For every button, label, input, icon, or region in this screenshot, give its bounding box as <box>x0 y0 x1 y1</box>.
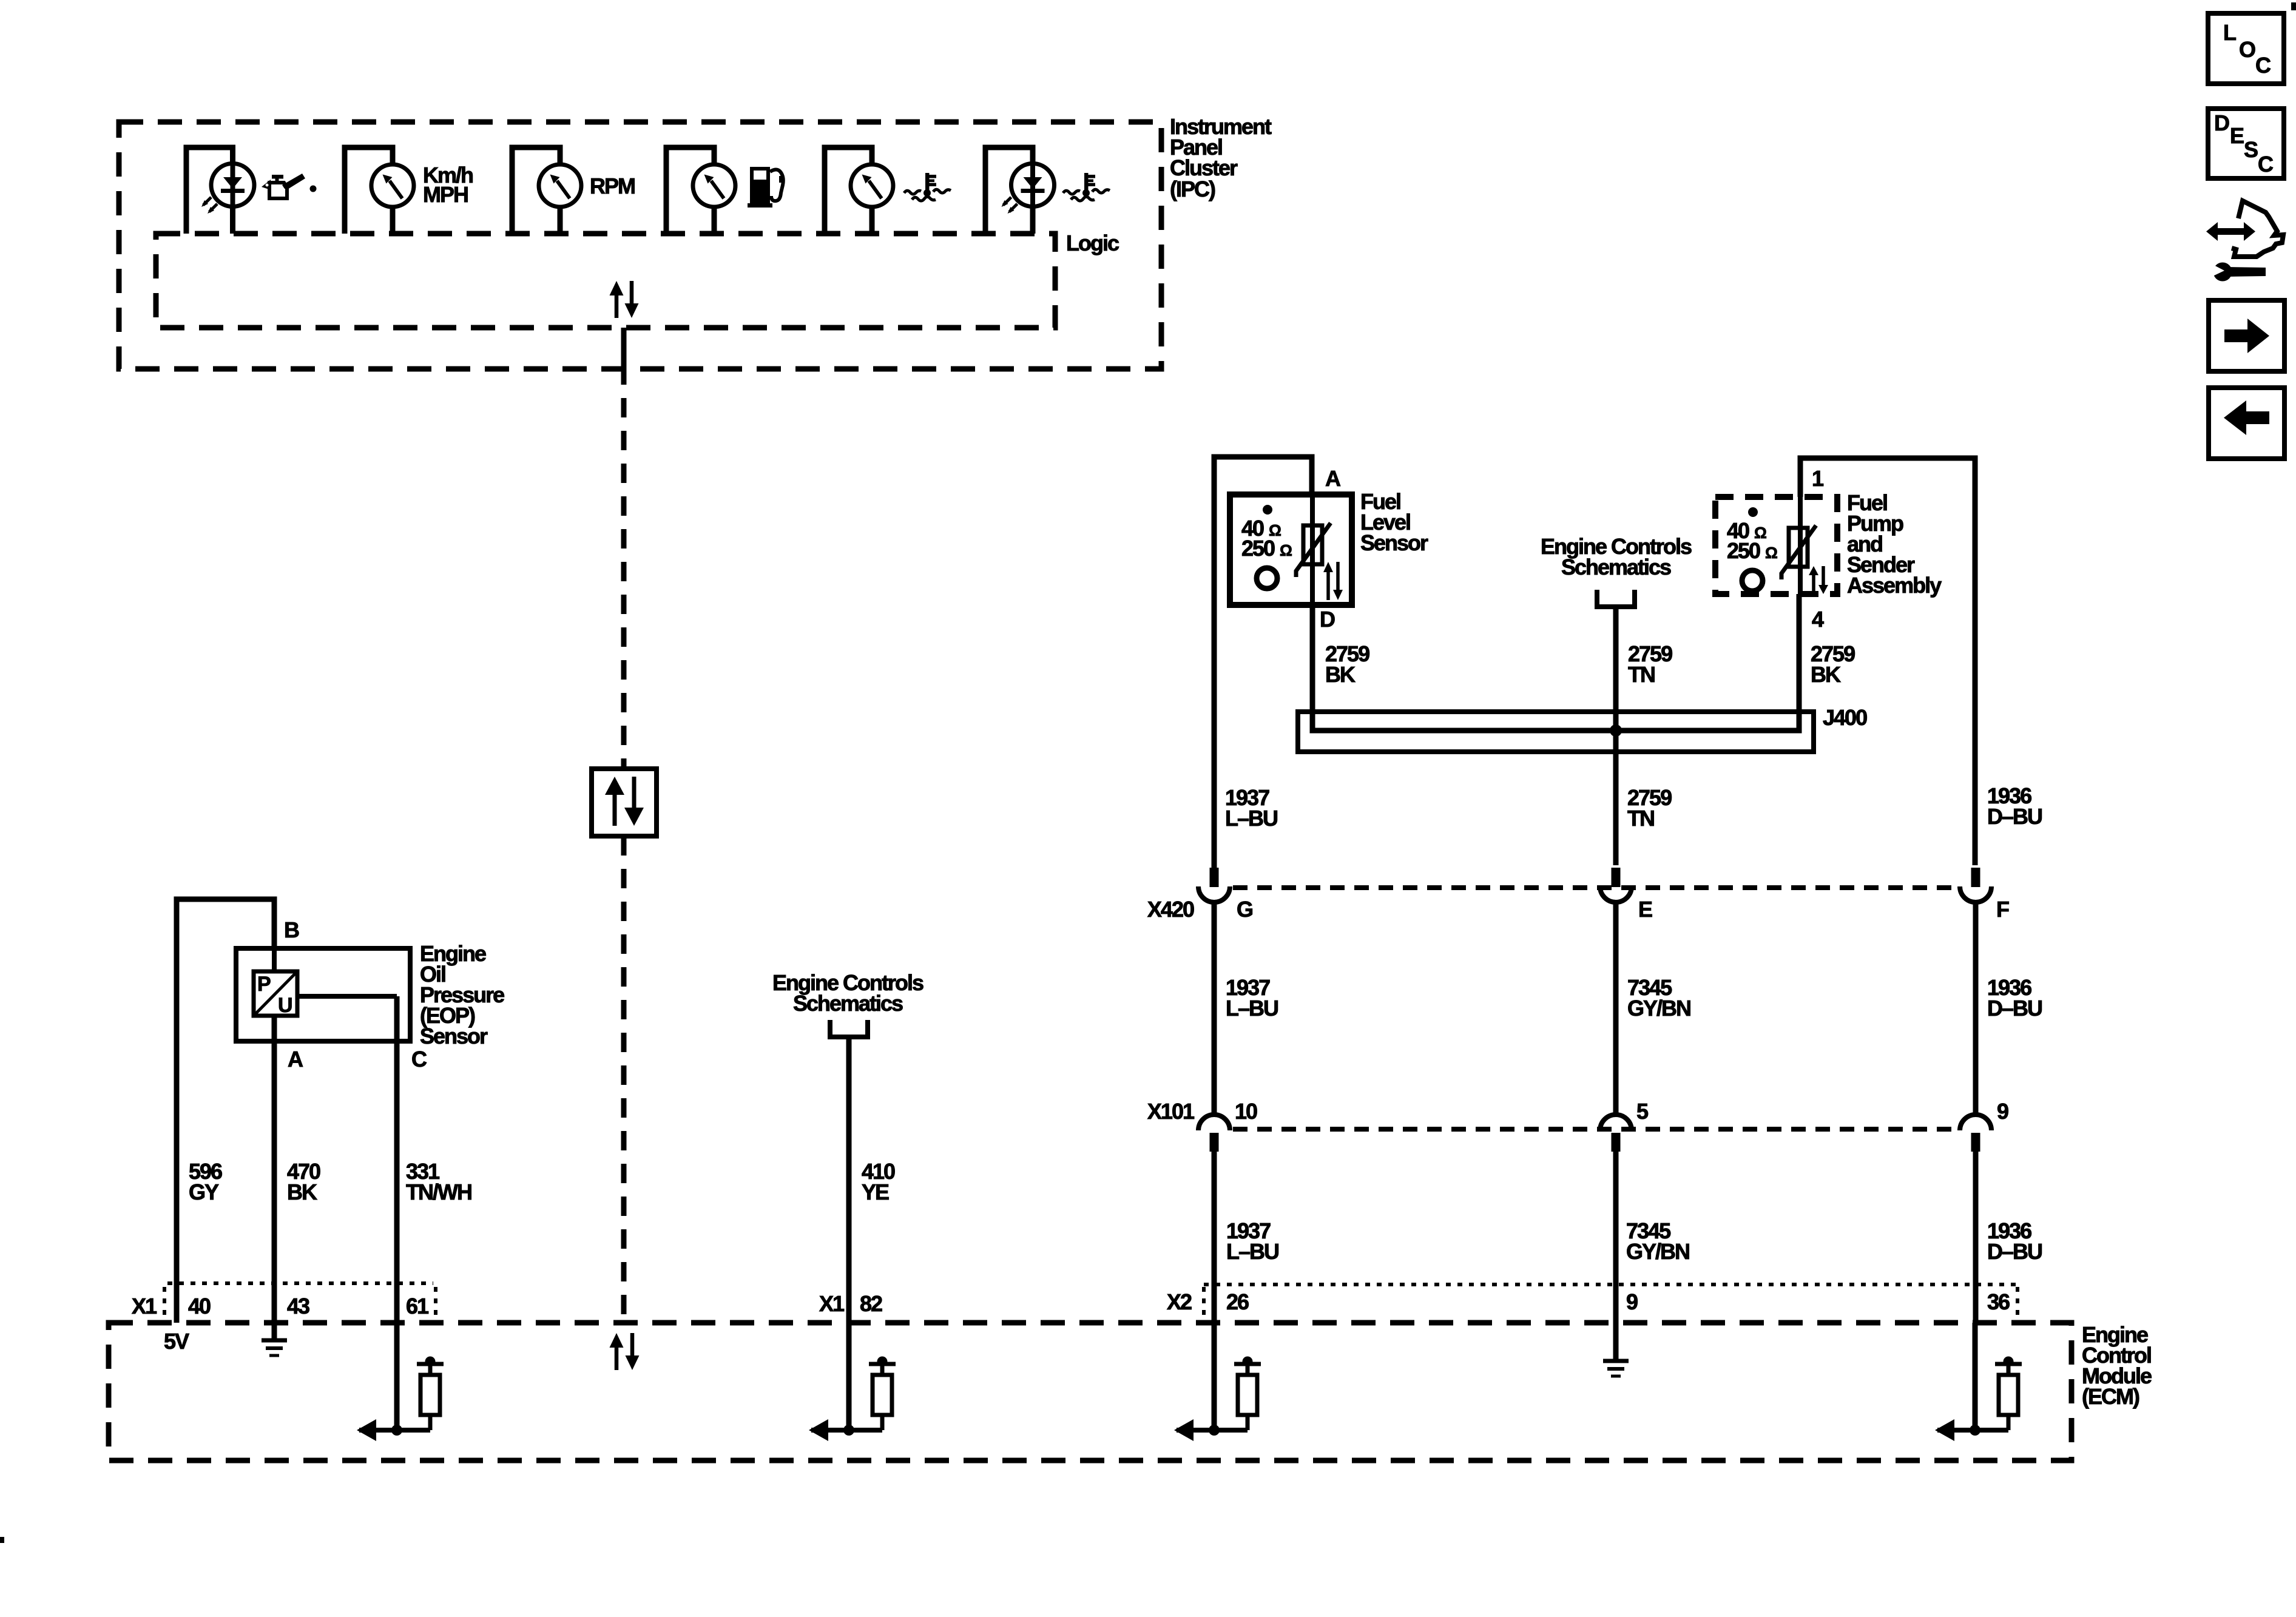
LED indicator 2 (coolant lamp) <box>1002 164 1055 214</box>
gauge loop 2 wire <box>345 147 393 234</box>
svg-text:P: P <box>257 973 271 996</box>
ECM pullup resistor pin 82 <box>809 1323 896 1441</box>
svg-text:D–BU: D–BU <box>1987 996 2042 1021</box>
svg-text:D–BU: D–BU <box>1987 804 2042 829</box>
svg-text:Assembly: Assembly <box>1847 573 1942 598</box>
svg-text:250: 250 <box>1727 538 1760 563</box>
svg-text:E: E <box>2230 123 2244 148</box>
wire 7345 GY/BN mid <box>1613 903 1619 1114</box>
IPC logic updown arrows <box>610 281 639 318</box>
fuel pump icon <box>748 167 783 208</box>
wire G above X420 <box>1212 865 1217 869</box>
fuel level sensor loop <box>1214 457 1312 865</box>
EOP P/U transducer symbol <box>254 971 297 1017</box>
gauge loop 3 wire <box>512 147 560 234</box>
IPC Logic box <box>156 234 1055 328</box>
svg-text:U: U <box>278 994 292 1017</box>
wire 7345 GY/BN lower <box>1613 1150 1619 1323</box>
connector X420 F <box>1960 868 1991 902</box>
wire 1936 D-BU mid <box>1973 903 1979 1114</box>
svg-text:C: C <box>2255 53 2271 78</box>
ECM pullup resistor pin 61 <box>357 1323 444 1441</box>
Engine Control Module box <box>109 1323 2071 1460</box>
ground symbol at pin 9 <box>1603 1323 1629 1376</box>
wire C inside box <box>394 996 400 1323</box>
svg-text:F: F <box>1996 897 2009 922</box>
fuel pump loop <box>1800 458 1975 865</box>
svg-text:A: A <box>1325 466 1341 491</box>
X1 connector left stub <box>163 1287 166 1318</box>
svg-text:L–BU: L–BU <box>1225 806 1277 831</box>
svg-text:L: L <box>2223 20 2236 45</box>
svg-text:E: E <box>1638 897 1652 922</box>
tachometer gauge <box>539 164 581 207</box>
svg-text:MPH: MPH <box>423 182 468 207</box>
svg-text:D: D <box>2214 110 2229 135</box>
svg-text:L–BU: L–BU <box>1226 996 1278 1021</box>
svg-text:Logic: Logic <box>1066 231 1119 255</box>
page corner mark top right <box>2291 2 2296 10</box>
svg-text:B: B <box>284 917 299 942</box>
svg-text:TN: TN <box>1628 662 1655 687</box>
svg-text:4: 4 <box>1812 607 1824 632</box>
wire 1936 D-BU lower <box>1973 1150 1979 1323</box>
wire 2759 TN upper <box>1613 607 1619 865</box>
back arrow icon box <box>2209 388 2284 459</box>
svg-text:BK: BK <box>287 1180 317 1204</box>
J400 internal bus wire <box>1312 728 1799 731</box>
svg-text:BK: BK <box>1325 662 1356 687</box>
wire through level sensor <box>1310 495 1315 605</box>
connector X420 E <box>1600 868 1632 902</box>
wire through pump sensor <box>1798 497 1803 594</box>
wire 2759 TN through J400 <box>1613 704 1619 758</box>
wire D to J400 <box>1310 605 1315 733</box>
svg-text:TN: TN <box>1627 806 1654 831</box>
svg-text:J400: J400 <box>1823 705 1867 730</box>
svg-text:YE: YE <box>862 1180 889 1204</box>
X1 connector right stub <box>434 1287 437 1318</box>
svg-text:Sensor: Sensor <box>1360 530 1428 555</box>
svg-text:X2: X2 <box>1167 1289 1192 1314</box>
updown arrows <box>1323 562 1343 600</box>
connector X101 10 <box>1198 1115 1230 1152</box>
updown arrows <box>1809 566 1828 594</box>
arrow box updown arrows <box>605 777 644 826</box>
X2 connector right stub <box>2016 1287 2019 1318</box>
Instrument Panel Cluster box <box>119 122 1161 369</box>
wire 4 to J400 <box>1797 594 1802 733</box>
svg-text:X1: X1 <box>132 1294 157 1318</box>
svg-text:(ECM): (ECM) <box>2082 1384 2139 1409</box>
svg-text:43: 43 <box>287 1294 309 1318</box>
gauge loop 4 wire <box>666 147 714 234</box>
X1 connector dotted line <box>167 1281 433 1285</box>
svg-text:26: 26 <box>1226 1289 1249 1314</box>
DESC icon box <box>2208 109 2284 178</box>
connector X101 5 <box>1600 1115 1632 1152</box>
X2 connector dotted line <box>1204 1283 2017 1286</box>
X420 dashed line <box>1233 885 1959 890</box>
LED indicator 1 (oil pressure lamp) <box>201 164 254 214</box>
gauge loop 6 wire <box>985 147 1033 234</box>
ECM pullup resistor pin 26 <box>1174 1323 1261 1441</box>
svg-text:C: C <box>411 1047 427 1072</box>
wire 1937 L-BU lower <box>1212 1150 1217 1323</box>
EOP sensor loop wire B <box>177 899 274 1323</box>
dashed line IPC to arrow box <box>621 398 627 766</box>
svg-text:TN/WH: TN/WH <box>406 1180 471 1204</box>
svg-text:O: O <box>2239 37 2255 62</box>
svg-text:5V: 5V <box>164 1329 189 1354</box>
J400 splice pack box <box>1298 712 1814 752</box>
svg-text:GY/BN: GY/BN <box>1627 996 1690 1021</box>
svg-text:Ω: Ω <box>1280 541 1292 559</box>
svg-text:250: 250 <box>1241 536 1275 561</box>
gauge loop 5 wire <box>825 147 872 234</box>
svg-text:82: 82 <box>860 1291 882 1316</box>
svg-text:1: 1 <box>1812 466 1824 491</box>
svg-text:D–BU: D–BU <box>1987 1239 2042 1264</box>
wire A <box>272 1016 277 1323</box>
wire 1937 L-BU mid <box>1212 903 1217 1114</box>
wire logic to IPC edge <box>621 328 627 385</box>
ECM pullup resistor pin 36 <box>1935 1323 2022 1441</box>
X2 connector left stub <box>1202 1287 1206 1318</box>
svg-text:40: 40 <box>188 1294 211 1318</box>
svg-text:Ω: Ω <box>1765 544 1777 562</box>
fuel gauge <box>693 164 735 207</box>
oil can icon <box>262 174 317 198</box>
svg-text:10: 10 <box>1235 1099 1257 1124</box>
svg-text:L–BU: L–BU <box>1226 1239 1278 1264</box>
gauge loop 1 wire <box>186 147 233 234</box>
svg-text:X420: X420 <box>1147 897 1194 922</box>
coolant temp icon 2 <box>1063 173 1110 201</box>
EOP sensor box <box>236 948 410 1041</box>
ECM serial updown arrows <box>610 1333 640 1370</box>
vehicle with wrench icon <box>2206 201 2283 282</box>
svg-text:5: 5 <box>1636 1099 1649 1124</box>
svg-text:61: 61 <box>406 1294 429 1318</box>
coolant temp icon 1 <box>904 173 951 201</box>
svg-text:9: 9 <box>1626 1289 1638 1314</box>
svg-text:Schematics: Schematics <box>793 991 903 1016</box>
EOP internal signal line <box>297 994 397 999</box>
svg-text:X1: X1 <box>819 1291 845 1316</box>
speedometer gauge <box>371 164 414 207</box>
svg-text:A: A <box>288 1047 303 1072</box>
wire B into P/U <box>272 948 277 971</box>
X101 dashed line <box>1233 1127 1959 1132</box>
fuel pump sender box <box>1715 497 1837 594</box>
svg-text:RPM: RPM <box>590 174 635 198</box>
LOC icon box <box>2208 13 2284 84</box>
off-page connector bracket (fuel) <box>1597 590 1635 607</box>
svg-text:D: D <box>1320 607 1335 632</box>
svg-text:Schematics: Schematics <box>1561 555 1671 579</box>
svg-text:(IPC): (IPC) <box>1170 177 1215 201</box>
coolant temp gauge <box>851 164 893 207</box>
connector X101 9 <box>1960 1115 1991 1152</box>
svg-text:GY: GY <box>189 1180 219 1204</box>
wire 410 YE <box>846 1037 852 1323</box>
off-page connector bracket (center) <box>830 1020 868 1037</box>
svg-text:BK: BK <box>1811 662 1841 687</box>
connector X420 G <box>1198 868 1230 902</box>
svg-text:Sensor: Sensor <box>420 1024 488 1048</box>
fuel level sensor box <box>1230 495 1352 605</box>
svg-text:36: 36 <box>1987 1289 2010 1314</box>
svg-text:S: S <box>2244 137 2258 162</box>
dashed line arrow box to ECM <box>621 836 627 1320</box>
svg-text:9: 9 <box>1997 1099 2008 1124</box>
ground symbol at pin 43 <box>262 1323 287 1355</box>
svg-text:GY/BN: GY/BN <box>1626 1239 1689 1264</box>
svg-text:G: G <box>1237 897 1252 922</box>
svg-text:X101: X101 <box>1147 1099 1195 1124</box>
forward arrow icon box <box>2209 300 2284 371</box>
svg-text:C: C <box>2258 152 2274 177</box>
J400 junction dot <box>1610 724 1622 737</box>
page mark bottom left <box>0 1537 4 1543</box>
serial data arrow box <box>592 769 657 836</box>
